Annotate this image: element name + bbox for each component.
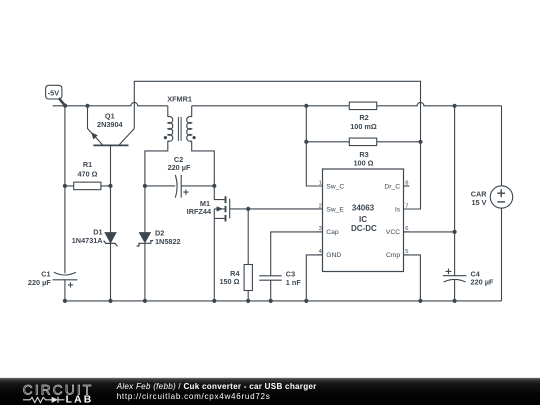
svg-text:100 Ω: 100 Ω	[353, 159, 373, 168]
svg-text:220 µF: 220 µF	[471, 278, 494, 287]
svg-text:XFMR1: XFMR1	[167, 95, 192, 104]
transistor Q1 2N3904	[88, 106, 135, 186]
svg-text:D2: D2	[155, 228, 164, 237]
svg-text:2N3904: 2N3904	[97, 120, 124, 129]
svg-text:8: 8	[405, 180, 408, 186]
svg-text:1N4731A: 1N4731A	[72, 236, 104, 245]
svg-text:34063: 34063	[352, 204, 375, 213]
wire pin4 ground	[306, 255, 322, 301]
capacitor C1 220uF	[28, 269, 77, 301]
svg-text:150 Ω: 150 Ω	[219, 277, 239, 286]
resistor R2 100 mohm	[349, 102, 377, 131]
svg-text:-5V: -5V	[48, 88, 59, 97]
svg-text:Is: Is	[395, 206, 401, 213]
svg-text:GND: GND	[326, 252, 341, 259]
svg-text:6: 6	[405, 226, 408, 232]
svg-text:220 µF: 220 µF	[168, 163, 191, 172]
svg-text:Dr_C: Dr_C	[384, 183, 400, 190]
wire pin1 net	[306, 106, 322, 186]
node junction dots	[63, 104, 457, 303]
svg-text:2: 2	[319, 203, 322, 209]
wire pin5 to rail	[404, 255, 421, 301]
diode D2 1N5822 schottky	[137, 186, 181, 301]
svg-text:DC-DC: DC-DC	[351, 224, 377, 233]
capacitor C3 1nF	[259, 232, 322, 301]
resistor R1 470 ohm	[65, 160, 111, 189]
resistor R3 100 ohm	[306, 138, 420, 168]
svg-text:Cmp: Cmp	[386, 252, 401, 259]
svg-text:Cap: Cap	[326, 229, 339, 236]
wire -5V net horizontal	[53, 102, 168, 105]
svg-text:IC: IC	[359, 215, 367, 224]
svg-text:Sw_E: Sw_E	[326, 206, 344, 213]
wire bottom rail	[65, 300, 502, 302]
logo diode	[52, 397, 58, 403]
svg-text:5: 5	[405, 249, 408, 255]
capacitor C2 220uF	[145, 155, 214, 198]
svg-text:R1: R1	[83, 160, 92, 169]
wire pin8 stub	[404, 185, 410, 187]
diode D1 1N4731A zener	[72, 186, 118, 301]
svg-text:Sw_C: Sw_C	[326, 183, 344, 190]
node -5V flag	[46, 85, 66, 105]
wire left rail	[64, 106, 66, 273]
voltage source CAR 15V	[471, 106, 513, 301]
svg-text:470 Ω: 470 Ω	[77, 169, 97, 178]
svg-text:VCC: VCC	[386, 229, 400, 236]
footer bar	[0, 378, 540, 405]
logo waveform resistor	[23, 397, 52, 402]
svg-text:100 mΩ: 100 mΩ	[350, 122, 377, 131]
capacitor C4 220uF	[443, 269, 494, 287]
svg-text:3: 3	[319, 226, 322, 232]
wire top loop collector to pin7	[134, 81, 420, 209]
svg-text:220 µF: 220 µF	[28, 278, 51, 287]
svg-text:Alex Feb (febb) / Cuk converte: Alex Feb (febb) / Cuk converter - car US…	[116, 382, 317, 391]
svg-text:1 nF: 1 nF	[286, 278, 302, 287]
svg-text:1: 1	[319, 180, 322, 186]
transformer XFMR1	[145, 95, 225, 200]
svg-text:LAB: LAB	[66, 395, 94, 405]
svg-text:7: 7	[405, 203, 408, 209]
wire main right horizontal	[192, 102, 502, 105]
svg-text:15 V: 15 V	[471, 198, 486, 207]
svg-text:IRFZ44: IRFZ44	[187, 207, 212, 216]
wire pin6 vcc	[404, 231, 455, 233]
IC 34063 DC-DC converter	[317, 169, 410, 272]
svg-text:1N5822: 1N5822	[155, 237, 181, 246]
transistor M1 IRFZ44 nmos	[187, 196, 323, 301]
resistor R4 150 ohm	[219, 209, 252, 301]
wire right rail	[454, 106, 456, 276]
svg-text:http://circuitlab.com/cpx4w46r: http://circuitlab.com/cpx4w46rud72s	[117, 392, 271, 401]
